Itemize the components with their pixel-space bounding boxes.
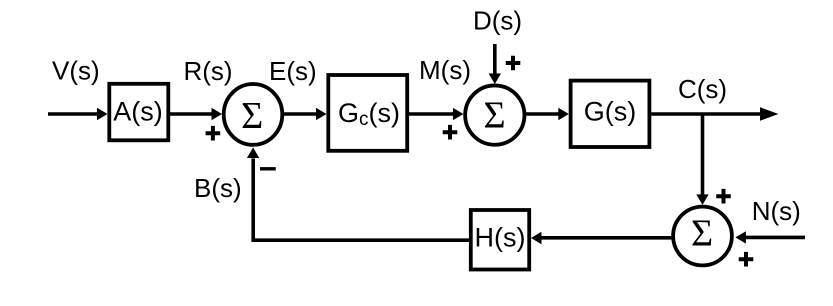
svg-text:Σ: Σ [241,95,263,137]
svg-text:V(s): V(s) [52,56,100,86]
block Gc(s) [328,75,407,151]
wire: V(s) input line [48,112,98,116]
arrowhead into S3 from branch [696,194,708,205]
svg-text:Gc(s): Gc(s) [338,98,400,130]
wire: Gc(s) to summer S2 [409,112,454,116]
svg-text:N(s): N(s) [752,196,801,226]
wire: A(s) to summer S1 [170,112,213,116]
block A(s) [109,84,168,141]
plus sign at S2 top (D input) [506,56,521,71]
wire: N(s) input line [746,236,806,240]
svg-text:Σ: Σ [691,213,713,255]
plus sign at S3 top (C input) [716,189,731,204]
arrowhead into S1 from A(s) [212,108,223,120]
wire: G(s) to output C(s) [651,112,761,116]
arrowhead into S3 from N(s) [735,231,746,243]
arrowhead into S2 from Gc(s) [453,108,464,120]
svg-text:M(s): M(s) [419,55,471,85]
block G(s) [571,81,650,147]
svg-text:A(s): A(s) [113,96,163,126]
plus sign at S2 left input [443,125,458,140]
wire: D(s) input drop [493,44,497,74]
wire: S2 to G(s) [526,112,559,116]
plus sign at S1 input [206,126,221,141]
svg-text:G(s): G(s) [584,97,636,127]
plus sign at S3 right (N input) [739,252,754,267]
svg-text:D(s): D(s) [473,6,522,36]
wire: S3 to H(s) [541,236,672,240]
arrowhead into G(s) [558,108,569,120]
arrowhead into Gc(s) [316,108,327,120]
wire: feedback from H(s) left, corner, up to S1 [253,158,469,240]
summing junction S3 [673,207,732,266]
svg-text:C(s): C(s) [678,74,727,104]
output arrowhead C(s) [760,107,778,121]
minus sign at S1 bottom (B feedback) [260,167,276,170]
arrowhead into S1 from feedback B(s) [247,148,259,159]
svg-text:B(s): B(s) [194,173,242,203]
svg-text:R(s): R(s) [184,56,233,86]
arrowhead into H(s) [531,232,542,244]
wire: branch from C(s) node down to S3 [701,114,705,195]
svg-text:H(s): H(s) [475,223,526,253]
summing junction S2 [465,85,524,144]
block H(s) [471,210,529,270]
svg-text:Σ: Σ [483,95,505,137]
summing junction S1 [224,84,283,145]
arrowhead into S2 from D(s) [489,74,501,85]
wire: S1 to Gc(s) [284,112,317,116]
arrowhead into A(s) [97,108,108,120]
svg-text:E(s): E(s) [269,56,317,86]
